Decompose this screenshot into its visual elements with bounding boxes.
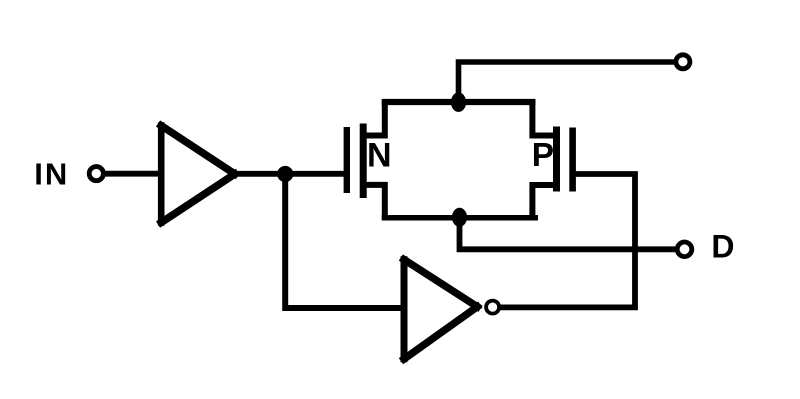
- wire N drain arm to top rail: [362, 102, 385, 136]
- wire P gate right, down, to inverter output: [499, 174, 635, 307]
- wire top rail: [382, 99, 536, 105]
- wire IN terminal to buffer input: [104, 171, 162, 177]
- inverter U2 bubble: [486, 301, 499, 314]
- svg-text:P: P: [532, 137, 554, 174]
- inverter U2 triangle: [404, 256, 477, 362]
- node A (junction dot): [277, 166, 293, 182]
- svg-text:IN: IN: [34, 157, 69, 192]
- wire node A down to inverter input: [285, 176, 401, 308]
- wire P source arm to bottom rail: [532, 185, 557, 218]
- node top (junction dot): [451, 92, 466, 112]
- wire buffer output to node A: [234, 171, 350, 177]
- wire N source arm to bottom rail: [362, 185, 385, 218]
- wire top node up and right to top terminal: [459, 62, 676, 104]
- terminal D (open circle): [677, 242, 692, 257]
- transistor P gate bar: [569, 128, 576, 192]
- svg-text:N: N: [367, 137, 392, 175]
- buffer U1 (non-inverting): [161, 122, 235, 226]
- wire bottom node down and right to terminal D: [460, 218, 677, 249]
- node bottom (junction dot): [452, 208, 467, 227]
- transistor N channel bar: [360, 124, 367, 199]
- wire bottom rail: [382, 215, 538, 221]
- wire P drain arm to top rail: [532, 102, 557, 136]
- terminal top (open circle): [676, 55, 690, 69]
- transistor N (NMOS) gate bar: [344, 127, 350, 193]
- svg-text:D: D: [711, 229, 734, 265]
- transistor P channel bar: [553, 127, 560, 192]
- terminal IN (open circle): [89, 167, 103, 181]
